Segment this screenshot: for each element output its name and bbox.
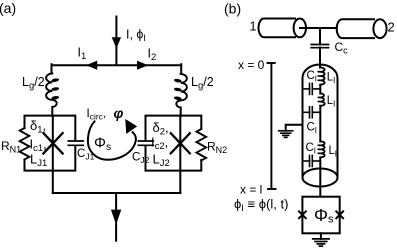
wire coil3 to ellipse [319,157,321,186]
svg-text:Φs: Φs [94,135,111,154]
transmission line cylinder 1 [259,19,295,38]
wire ellipse to squid box [319,187,321,197]
arrow I2 right [137,61,148,70]
junction X left on squid [299,211,306,218]
inductor Ll coil 3 [320,141,324,157]
x axis line [268,63,276,189]
arrow down bottom feed [111,210,121,225]
inductor Ll coil 1 [320,68,324,85]
capacitor Cl branch 1 [303,83,321,94]
inductor Ll coil 2 [320,93,324,105]
svg-text:CJ1: CJ1 [77,148,95,162]
wire J1 to bottom rail [52,171,54,193]
wire T to Cc [319,28,321,45]
wire coil to left box [51,108,53,117]
junction box J1 outline [25,116,76,171]
junction X right on squid [336,211,343,218]
wire cylinder link [300,27,337,29]
svg-text:LJ1: LJ1 [30,152,47,170]
svg-text:(a): (a) [0,0,16,16]
capacitor Cl branch 3 [303,156,321,167]
wire bottom feed vertical [115,193,117,241]
svg-text:1: 1 [250,20,257,34]
svg-text:RN2: RN2 [207,140,227,156]
squid box [302,197,339,234]
wire right drop [180,64,182,74]
circulating current arc [88,121,136,159]
svg-text:Cl: Cl [306,142,316,156]
wire J1 center [52,116,54,171]
wire top rail [52,64,182,66]
capacitor Cc [311,45,328,48]
capacitor CJ2 [138,141,153,145]
josephson junction X2 [171,133,190,153]
junction box J2 outline [146,116,202,171]
arrowhead circulating [125,119,137,134]
svg-text:x = l: x = l [240,183,262,197]
resonator body outline [303,65,338,178]
svg-text:Lg/2: Lg/2 [22,75,45,92]
resonator bottom ellipse [303,169,338,187]
inductor Lg/2 left coil [46,74,57,107]
transmission line cylinder 2 [337,19,374,38]
svg-text:2: 2 [388,20,395,35]
svg-text:Cc: Cc [335,40,349,56]
wire coil1 to coil2 [319,85,321,94]
svg-text:I2: I2 [148,47,157,64]
svg-text:Ll: Ll [329,145,337,159]
ground left wire [286,125,303,131]
svg-text:δ1,: δ1, [30,118,46,136]
svg-text:x = 0: x = 0 [238,58,265,72]
svg-text:Icirc,: Icirc, [87,108,107,122]
svg-text:φ: φ [114,105,124,121]
arrow I1 left [86,61,97,70]
ground left symbol [279,131,293,138]
resistor RN1 [20,128,30,160]
capacitor CJ1 [68,141,83,145]
svg-text:I1: I1 [78,46,87,63]
svg-text:Ll: Ll [327,72,335,86]
resistor RN2 [197,129,207,161]
wire top feed vertical [115,17,117,66]
wire left drop [51,64,53,73]
wire squid to ground [320,233,322,239]
wire Cc to resonator [319,48,321,68]
svg-text:CJ2: CJ2 [132,152,150,166]
svg-text:(b): (b) [224,1,241,17]
inductor Lg/2 right coil [176,74,187,107]
svg-text:LJ2: LJ2 [153,152,170,170]
svg-text:Cl: Cl [307,122,317,136]
svg-text:ϕI ≡ ϕ(l, t): ϕI ≡ ϕ(l, t) [234,197,288,215]
svg-text:Φs: Φs [314,205,334,226]
svg-text:Ll: Ll [327,95,335,109]
wire bottom rail [53,192,181,194]
ground bottom symbol [313,239,329,246]
arrow down on top feed [112,37,121,48]
wire J2 center [179,116,181,171]
wire J2 to bottom rail [179,171,181,193]
josephson junction X1 [43,133,62,153]
svg-text:I, ϕI: I, ϕI [126,28,146,44]
wire coil2 down [319,106,321,142]
capacitor Cl branch 2 [303,107,321,118]
wire coil to right box [180,108,182,116]
svg-text:Lg/2: Lg/2 [191,75,214,92]
svg-text:Cl: Cl [307,70,317,84]
